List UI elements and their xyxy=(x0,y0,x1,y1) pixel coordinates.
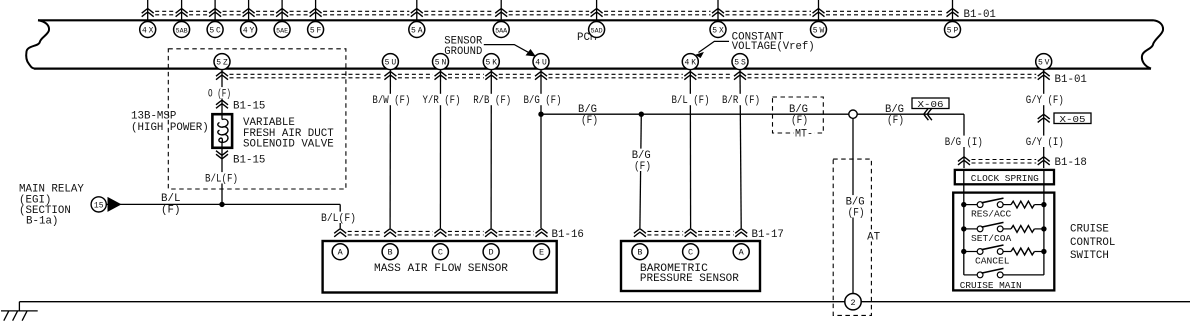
svg-text:B/L(F): B/L(F) xyxy=(321,213,356,225)
connector chevron below pin 5N xyxy=(435,72,447,77)
PCM pin 5X xyxy=(710,22,726,38)
PCM pin 5P xyxy=(945,22,961,38)
PCM pin 5AE xyxy=(274,22,290,38)
svg-text:CRUISE: CRUISE xyxy=(1070,224,1109,236)
MAF pin E xyxy=(534,244,550,260)
connector B1-16 dashed line xyxy=(348,230,383,232)
PCM pin 5P wire xyxy=(952,0,954,20)
PCM pin 5C xyxy=(207,22,223,38)
AT dashed enclosure xyxy=(833,159,871,315)
svg-text:A: A xyxy=(739,248,745,258)
left rail xyxy=(963,193,965,275)
ground rail wire xyxy=(19,301,844,303)
horizontal B/G bus wire xyxy=(541,113,849,115)
wire color label G/Y (I) xyxy=(1025,136,1065,147)
resistor RES/ACC xyxy=(1011,201,1034,208)
svg-text:B/L: B/L xyxy=(161,193,180,205)
wire R/B (F) pin 5K to MAF xyxy=(490,70,492,228)
PCM pin 5X wire xyxy=(717,0,719,20)
connector B1-01 dashed line (top) xyxy=(155,10,174,12)
MAF pin B xyxy=(382,244,398,260)
svg-text:B/L(F): B/L(F) xyxy=(205,174,238,186)
main relay arrow xyxy=(108,197,122,212)
svg-text:(F): (F) xyxy=(791,115,808,127)
svg-text:B/W (F): B/W (F) xyxy=(372,95,410,107)
connector chevron below pin 5Z xyxy=(216,72,228,77)
connector chevron at pin 5X xyxy=(712,9,724,14)
connector B1-17 dashed line xyxy=(647,230,683,232)
PCM pin 5AB wire xyxy=(181,0,183,20)
PCM pin 5K xyxy=(483,54,499,70)
svg-text:4U: 4U xyxy=(535,58,547,67)
svg-text:5AD: 5AD xyxy=(591,27,603,35)
svg-text:B: B xyxy=(637,248,642,258)
wire color label B/W (F) xyxy=(371,94,411,105)
wire color label R/B (F) xyxy=(472,94,512,105)
wire color label O (F) xyxy=(207,87,232,98)
junction B/G to barometric sensor xyxy=(639,112,644,117)
wire color label B/L(F) at MAF A xyxy=(320,212,357,223)
svg-text:2: 2 xyxy=(850,298,855,308)
connector chevron at pin 5AA xyxy=(495,9,507,14)
connector chevron at pin 5AD xyxy=(591,9,603,14)
svg-text:B/R (F): B/R (F) xyxy=(722,95,760,107)
PCM connector bus bottom line xyxy=(34,67,1151,69)
svg-text:CONTROL: CONTROL xyxy=(1070,237,1115,249)
svg-text:B1-15: B1-15 xyxy=(233,155,265,167)
switch CANCEL xyxy=(961,249,966,254)
svg-text:5C: 5C xyxy=(209,26,221,35)
svg-text:B/L (F): B/L (F) xyxy=(672,95,710,107)
wire color label G/Y (F) xyxy=(1025,94,1065,105)
svg-text:X-06: X-06 xyxy=(918,99,944,110)
svg-text:RES/ACC: RES/ACC xyxy=(971,209,1012,220)
label AT xyxy=(866,230,881,241)
PCM pin 5AA xyxy=(493,22,509,38)
cruise control switch box xyxy=(953,193,1054,291)
MAF pin D xyxy=(483,244,499,260)
svg-text:B1-18: B1-18 xyxy=(1055,157,1087,169)
PCM pin 5W wire xyxy=(818,0,820,20)
PCM pin 5F xyxy=(308,22,324,38)
svg-text:D: D xyxy=(489,248,494,258)
connector B1-18 dashed line xyxy=(972,159,1037,161)
svg-text:5X: 5X xyxy=(712,26,724,35)
connector B1-18 chevron left xyxy=(958,157,970,162)
13B-MSP (HIGH POWER) dashed enclosure xyxy=(168,49,346,189)
wire color label B/L(F) xyxy=(204,172,239,183)
MT dashed enclosure xyxy=(773,97,824,133)
PCM pin 5AA wire xyxy=(500,0,502,20)
wire 5Z to solenoid (O wire) xyxy=(221,70,223,115)
resistor SET/COA xyxy=(1011,226,1034,233)
wire G/Y pin 5V down xyxy=(1043,70,1045,168)
svg-text:PRESSURE SENSOR: PRESSURE SENSOR xyxy=(640,273,740,285)
wire color label B/G (F) AT xyxy=(845,195,866,206)
wire color label B/R (F) xyxy=(721,94,761,105)
wire B/L pin 4K to baro C xyxy=(689,70,691,228)
MAF pin C xyxy=(432,244,448,260)
svg-text:B1-17: B1-17 xyxy=(752,229,784,241)
wire B/W (F) pin 5U to MAF xyxy=(389,70,391,228)
connector chevron X-06 xyxy=(924,108,929,120)
connector chevron baro pin A xyxy=(735,229,747,234)
wire solenoid to junction (B/L) xyxy=(221,148,223,205)
PCM pin 4X wire xyxy=(147,0,149,20)
MAF pin A xyxy=(332,244,348,260)
connector chevron MAF pin C xyxy=(434,229,446,234)
wire color label B/G (I) xyxy=(944,136,984,147)
main relay source circle 15 xyxy=(91,197,106,212)
connector chevron MAF pin D xyxy=(485,229,497,234)
svg-text:5A: 5A xyxy=(411,26,423,35)
connector chevron below pin 5K xyxy=(485,72,497,77)
svg-text:5F: 5F xyxy=(310,26,322,35)
svg-text:C: C xyxy=(438,248,443,258)
wire B/R pin 5S to baro A xyxy=(740,70,741,228)
wire open circle to corner (B/G) xyxy=(857,113,964,115)
connector chevron at pin 5AE xyxy=(276,9,288,14)
svg-text:4X: 4X xyxy=(142,26,154,35)
PCM pin 5F wire xyxy=(315,0,317,20)
SENSOR GROUND leader arrow to pin 4U xyxy=(484,45,531,54)
PCM pin 5V xyxy=(1036,54,1052,70)
connector chevron at pin 4Y xyxy=(243,9,255,14)
svg-text:5N: 5N xyxy=(435,58,447,67)
wire B/G open circle down to connector 2 xyxy=(852,118,854,293)
PCM pin 4Y xyxy=(241,22,257,38)
svg-text:B/G (F): B/G (F) xyxy=(524,95,562,107)
connector junction (open circle) xyxy=(849,110,857,118)
svg-text:5S: 5S xyxy=(734,58,746,67)
connector chevron below pin 5U xyxy=(384,72,396,77)
svg-text:(F): (F) xyxy=(848,208,865,220)
PCM pin 4X xyxy=(140,22,156,38)
svg-text:5AE: 5AE xyxy=(276,27,288,35)
svg-text:O (F): O (F) xyxy=(208,89,231,101)
connector chevron at pin 5F xyxy=(310,9,322,14)
svg-text:13B-MSP: 13B-MSP xyxy=(131,111,176,123)
connector chevron below pin 5V xyxy=(1038,72,1050,77)
barometric pressure sensor box xyxy=(621,241,760,291)
svg-text:B1-01: B1-01 xyxy=(1055,74,1087,86)
connector chevron at pin 5A xyxy=(411,9,423,14)
svg-text:CLOCK SPRING: CLOCK SPRING xyxy=(971,173,1039,184)
svg-text:5P: 5P xyxy=(947,26,959,35)
connector chevron MAF pin A xyxy=(334,229,346,234)
connector chevron X-05 xyxy=(1038,114,1050,119)
switch CRUISE MAIN xyxy=(964,274,977,276)
connector chevron below pin 4U xyxy=(535,72,547,77)
wire main relay to MAF pin A (B/L) xyxy=(107,203,341,205)
connector chevron MAF pin E xyxy=(536,229,548,234)
wire color label Y/R (F) xyxy=(422,94,462,105)
switch SET/COA xyxy=(961,226,966,231)
junction solenoid/relay wire xyxy=(219,202,224,207)
svg-text:(F): (F) xyxy=(887,115,904,127)
svg-text:E: E xyxy=(539,248,544,258)
svg-text:SWITCH: SWITCH xyxy=(1070,250,1109,262)
svg-text:15: 15 xyxy=(94,201,104,210)
PCM pin 5AB xyxy=(174,22,190,38)
wire Y/R (F) pin 5N to MAF xyxy=(439,70,441,228)
connector chevron at pin 5P xyxy=(947,9,959,14)
solenoid coil xyxy=(221,114,223,119)
svg-text:X-05: X-05 xyxy=(1060,114,1086,125)
PCM pin 4U xyxy=(533,54,549,70)
svg-text:5U: 5U xyxy=(385,58,397,67)
PCM pin 5AE wire xyxy=(281,0,283,20)
svg-text:VOLTAGE(Vref): VOLTAGE(Vref) xyxy=(732,41,815,53)
connector chevron baro pin B xyxy=(634,229,646,234)
PCM pin 5A xyxy=(409,22,425,38)
wire color label B/L (F) xyxy=(671,94,711,105)
svg-text:5AA: 5AA xyxy=(495,27,508,35)
baro pin A xyxy=(733,244,749,260)
connector B1-18 chevron right xyxy=(1038,157,1050,162)
svg-text:AT: AT xyxy=(867,232,881,244)
svg-text:5K: 5K xyxy=(486,58,498,67)
svg-text:Y/R (F): Y/R (F) xyxy=(423,95,461,107)
svg-text:SET/COA: SET/COA xyxy=(971,233,1012,244)
svg-text:G/Y (F): G/Y (F) xyxy=(1026,95,1064,107)
connector chevron baro pin C xyxy=(685,229,697,234)
wire through clock spring left xyxy=(963,170,965,193)
svg-text:B: B xyxy=(388,248,393,258)
PCM pin 5N xyxy=(433,54,449,70)
svg-text:5Z: 5Z xyxy=(216,58,228,67)
svg-text:4K: 4K xyxy=(685,58,697,67)
clock spring box xyxy=(955,170,1054,184)
connector chevron below pin 5S xyxy=(734,72,746,77)
connector chevron at pin 5AB xyxy=(176,9,188,14)
PCM pin 5Z xyxy=(214,54,230,70)
PCM connector bus top line xyxy=(38,19,1153,21)
baro pin C xyxy=(683,244,699,260)
svg-text:B-1a): B-1a) xyxy=(26,216,58,228)
svg-text:CRUISE MAIN: CRUISE MAIN xyxy=(960,280,1022,291)
variable fresh air duct solenoid valve body xyxy=(212,114,232,148)
mass air flow sensor box xyxy=(323,241,557,293)
wire B/G to barometric pin B xyxy=(640,114,641,228)
connector chevron at pin 5W xyxy=(813,9,825,14)
connector chevron at pin 4X xyxy=(142,9,154,14)
svg-text:5W: 5W xyxy=(813,26,825,35)
junction 4U/horizontal B/G xyxy=(538,112,543,117)
svg-text:B1-15: B1-15 xyxy=(233,101,265,113)
svg-text:B/G (I): B/G (I) xyxy=(945,137,983,149)
svg-text:CANCEL: CANCEL xyxy=(975,255,1010,266)
right rail xyxy=(1043,193,1045,275)
svg-text:(F): (F) xyxy=(634,161,651,173)
svg-text:A: A xyxy=(338,248,344,258)
wire color label B/G (F) baro xyxy=(631,149,652,160)
connector circle 2 xyxy=(845,294,861,310)
svg-text:C: C xyxy=(688,248,693,258)
ground symbol xyxy=(1,310,38,312)
PCM pin 5U xyxy=(382,54,398,70)
label CLOCK SPRING xyxy=(970,173,1040,183)
PCM pin 5AD wire xyxy=(596,0,598,20)
CONSTANT VOLTAGE leader arrow to pin 4K xyxy=(699,41,730,52)
svg-text:B1-01: B1-01 xyxy=(964,9,996,21)
PCM pin 4K xyxy=(682,54,698,70)
wire through clock spring right xyxy=(1043,170,1045,193)
connector B1-01 dashed line (bottom) xyxy=(230,73,383,75)
PCM pin 5AD xyxy=(589,22,605,38)
svg-text:(HIGH POWER): (HIGH POWER) xyxy=(131,122,209,134)
connector B1-15 chevron (top) xyxy=(216,100,228,105)
connector chevron below pin 4K xyxy=(684,72,696,77)
svg-text:B1-16: B1-16 xyxy=(552,229,584,241)
PCM pin 5A wire xyxy=(416,0,418,20)
PCM pin 5S xyxy=(732,54,748,70)
svg-text:MASS AIR FLOW SENSOR: MASS AIR FLOW SENSOR xyxy=(374,263,509,275)
svg-text:5V: 5V xyxy=(1038,58,1050,67)
svg-text:4Y: 4Y xyxy=(243,26,255,35)
label MT xyxy=(794,127,814,138)
connector X-05 box xyxy=(1054,113,1091,124)
connector X-06 box xyxy=(912,98,949,109)
connector chevron at pin 5C xyxy=(209,9,221,14)
svg-text:(F): (F) xyxy=(161,205,180,217)
svg-text:SOLENOID VALVE: SOLENOID VALVE xyxy=(243,139,334,151)
svg-text:G/Y (I): G/Y (I) xyxy=(1026,137,1064,149)
PCM pin 4Y wire xyxy=(248,0,250,20)
wire corner down to clock spring (B/G) xyxy=(963,114,965,168)
svg-text:GROUND: GROUND xyxy=(444,46,482,58)
PCM pin 5W xyxy=(811,22,827,38)
svg-text:R/B (F): R/B (F) xyxy=(473,95,511,107)
switch RES/ACC xyxy=(961,202,966,207)
ground lead xyxy=(18,302,20,311)
PCM bus right torn edge xyxy=(1142,20,1163,68)
resistor CANCEL xyxy=(1011,248,1034,255)
connector chevron MAF pin B xyxy=(384,229,396,234)
wire B/G pin 4U down xyxy=(540,70,542,228)
PCM bus left torn edge xyxy=(26,20,49,68)
PCM pin 5C wire xyxy=(214,0,216,20)
svg-text:(F): (F) xyxy=(581,115,598,127)
connector B1-15 chevron (bottom) xyxy=(216,151,228,156)
baro pin B xyxy=(632,244,648,260)
wire color label B/G (F) at 4U xyxy=(523,94,563,105)
svg-text:5AB: 5AB xyxy=(176,27,188,35)
svg-text:MT-: MT- xyxy=(795,129,813,141)
